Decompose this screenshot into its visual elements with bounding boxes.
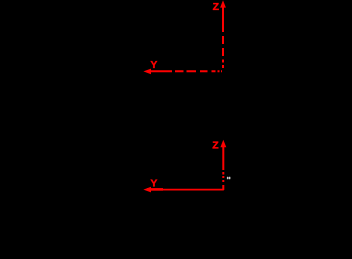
svg-text:Y: Y [150,178,157,190]
axis Y (top frame) dashed horizontal line [149,70,222,72]
axis Y (bottom frame) solid horizontal line [148,189,224,191]
arrowhead Y (bottom frame) [143,187,151,193]
arrowhead Y (top frame) [143,69,151,75]
arrowhead Z (top frame) [220,0,226,7]
axis Z (bottom frame) vertical line with dotted break [222,145,224,190]
axis Y (bottom frame) thicker segment near arrowhead [147,188,163,191]
svg-text:Z: Z [212,140,219,152]
axis Z (top frame) dashed vertical line [222,6,224,68]
svg-text:Z: Z [213,1,220,13]
svg-text:Y: Y [150,59,157,71]
arrowhead Z (bottom frame) [220,140,226,147]
small gray tick mark near bottom Z axis [227,177,231,180]
